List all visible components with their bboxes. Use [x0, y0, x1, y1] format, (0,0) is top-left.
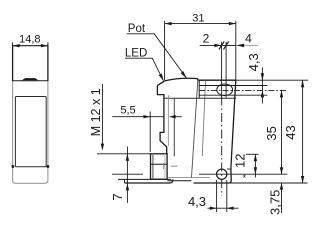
dim 14,8 [13, 33, 48, 47]
hole horizontal centerline / bottom ref line [199, 173, 287, 175]
pot slot bottom line [199, 94, 267, 96]
hole tangent ext left [216, 180, 218, 212]
window inner vertical [173, 98, 175, 156]
side bottom gray ledge [168, 177, 210, 179]
mounting flange [118, 179, 173, 183]
pot slot vertical left / dim2 ext [221, 42, 223, 98]
front view body outline [13, 46, 48, 184]
connector axis cross [164, 163, 178, 169]
dim 3,75 [268, 183, 283, 215]
svg-text:5,5: 5,5 [120, 105, 135, 117]
Pot label and leader [127, 23, 187, 78]
M12 leader line [101, 84, 103, 144]
pot axis dash-dot [199, 89, 287, 91]
pot ellipse [217, 84, 233, 96]
svg-text:12: 12 [233, 154, 248, 168]
hole tangent ext right [226, 180, 228, 212]
svg-text:4,3: 4,3 [188, 194, 206, 209]
hole vertical centerline [221, 97, 223, 197]
front module bottom edge [167, 180, 191, 182]
dim 31 [165, 13, 236, 81]
svg-text:35: 35 [264, 126, 279, 140]
dim 43 [283, 80, 304, 183]
inner divider slant A [192, 80, 198, 177]
dim 2 and 4 [200, 32, 258, 50]
hole-to-edge step line [227, 168, 231, 170]
front lens bump [22, 78, 39, 80]
pot slot vertical right / dim2 ext [225, 42, 227, 98]
svg-text:Pot: Pot [128, 23, 146, 35]
front clamp dot left [12, 165, 15, 168]
dim 35 [264, 90, 283, 174]
front window rect [15, 97, 46, 167]
dim 12 [233, 154, 259, 178]
bottom edge extension right [194, 182, 308, 184]
inner divider slant B [202, 80, 205, 156]
dim 5,5 [112, 105, 182, 153]
pot slot top line [199, 85, 267, 87]
svg-text:7: 7 [110, 193, 125, 200]
front separation line [13, 80, 48, 82]
svg-text:31: 31 [192, 13, 204, 25]
window top line side view [164, 97, 236, 99]
dim 4,3 top right [246, 53, 264, 103]
hole ref line left for dim 7 [112, 173, 143, 175]
svg-text:LED: LED [125, 48, 147, 60]
svg-text:2: 2 [203, 32, 210, 46]
pot box left edge [198, 80, 200, 98]
svg-text:43: 43 [283, 125, 298, 139]
svg-text:4,3: 4,3 [246, 53, 261, 71]
dim 7 [97, 147, 150, 203]
LED label and leader [125, 48, 164, 82]
svg-text:M 12 x 1: M 12 x 1 [89, 88, 103, 136]
svg-text:14,8: 14,8 [19, 33, 40, 45]
svg-text:3,75: 3,75 [268, 190, 283, 215]
front face gray line [167, 95, 169, 146]
front clamp dot right [47, 165, 50, 168]
connector barrel [151, 154, 168, 179]
side view outline [157, 78, 235, 183]
svg-text:*: * [243, 173, 247, 183]
svg-text:4: 4 [245, 32, 252, 46]
top edge extension right [236, 79, 308, 81]
dim 4,3 bottom [188, 194, 239, 210]
mounting hole [217, 169, 227, 179]
